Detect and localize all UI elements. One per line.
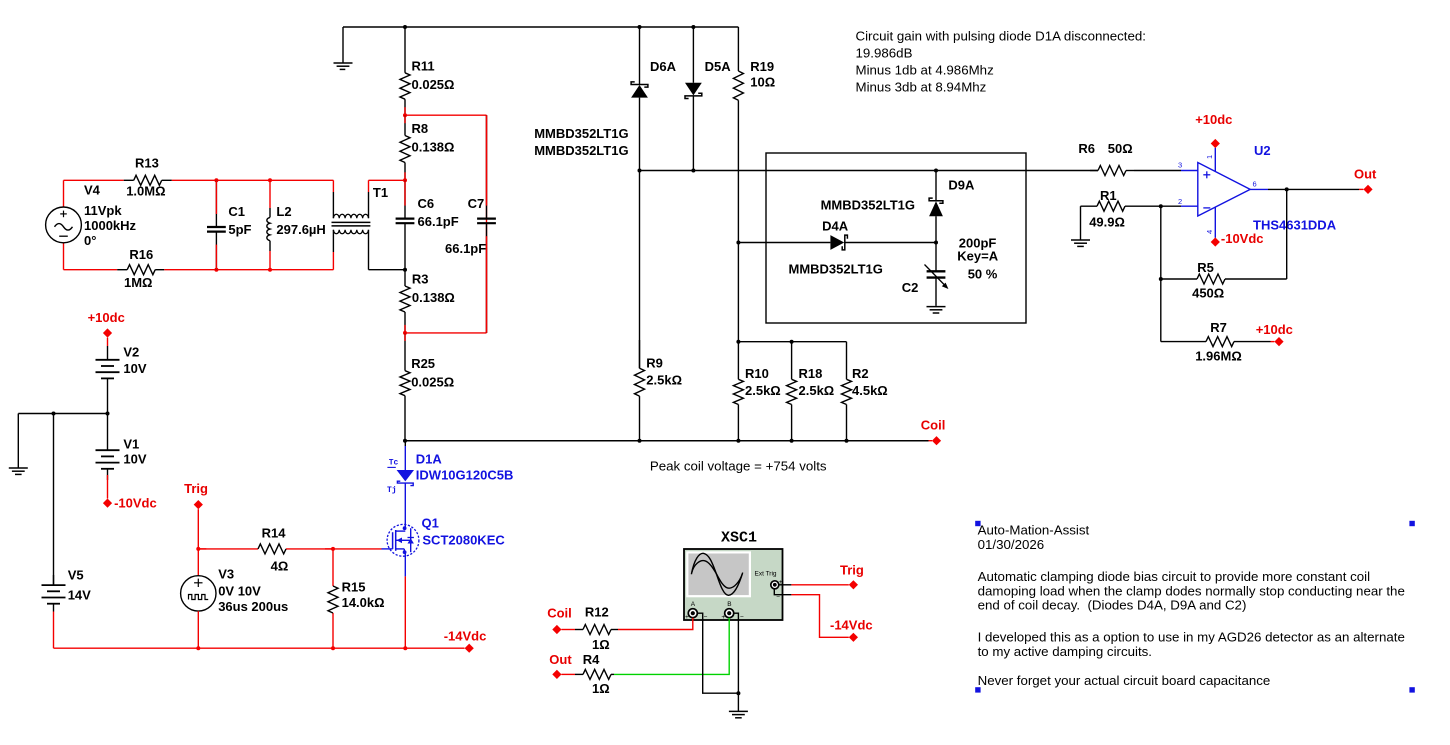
resistor R5 xyxy=(1161,260,1287,301)
wire (A- to ground) xyxy=(697,613,738,693)
node junction (red) xyxy=(403,331,407,335)
svg-text:IDW10G120C5B: IDW10G120C5B xyxy=(416,468,514,483)
svg-text:19.986dB: 19.986dB xyxy=(856,46,913,61)
svg-text:R2: R2 xyxy=(852,366,869,381)
wire xyxy=(1134,170,1181,172)
wire xyxy=(929,440,933,442)
resistor R25 xyxy=(400,333,454,441)
resistor R14 xyxy=(198,525,333,573)
svg-text:R14: R14 xyxy=(262,525,287,540)
svg-text:R1: R1 xyxy=(1100,188,1117,203)
svg-text:2.5kΩ: 2.5kΩ xyxy=(745,383,781,398)
svg-text:XSC1: XSC1 xyxy=(721,530,757,547)
svg-text:4Ω: 4Ω xyxy=(271,558,289,573)
svg-text:1.0MΩ: 1.0MΩ xyxy=(126,184,165,199)
svg-text:MMBD352LT1G: MMBD352LT1G xyxy=(789,262,883,277)
svg-text:R8: R8 xyxy=(412,121,429,136)
node xyxy=(268,268,272,272)
svg-text:R4: R4 xyxy=(583,652,600,667)
node junction xyxy=(196,646,200,650)
diode D4A xyxy=(822,219,849,250)
svg-text:1Ω: 1Ω xyxy=(592,637,610,652)
svg-text:+10dc: +10dc xyxy=(88,310,125,325)
svg-text:1Ω: 1Ω xyxy=(592,681,610,696)
svg-text:D5A: D5A xyxy=(705,59,732,74)
svg-text:-14Vdc: -14Vdc xyxy=(444,628,487,643)
wire xyxy=(18,413,107,415)
node junction xyxy=(106,412,110,416)
node Coil xyxy=(921,418,946,446)
svg-text:-14Vdc: -14Vdc xyxy=(830,617,873,632)
node junction xyxy=(403,268,407,272)
node -14Vdc xyxy=(444,628,487,652)
resistor R7 xyxy=(1161,320,1271,364)
source V3 xyxy=(181,549,289,648)
capacitor C2 xyxy=(902,235,999,305)
svg-text:damoping load when the clamp d: damoping load when the clamp dodes norma… xyxy=(978,583,1405,598)
svg-text:0.025Ω: 0.025Ω xyxy=(411,375,454,390)
diode D5A xyxy=(685,27,731,171)
transistor Q1 xyxy=(382,516,506,557)
inductor L2 xyxy=(267,180,326,269)
annotation handles (blue squares) xyxy=(975,521,1415,693)
svg-text:R10: R10 xyxy=(745,366,769,381)
wire (jog) xyxy=(738,341,846,343)
svg-text:V2: V2 xyxy=(123,345,139,360)
node junction xyxy=(736,340,740,344)
resistor R19 xyxy=(733,27,775,243)
node junction (red) xyxy=(403,178,407,182)
svg-text:2: 2 xyxy=(1178,197,1182,206)
wire xyxy=(639,171,641,369)
svg-text:14V: 14V xyxy=(68,588,91,603)
node Coil (scope) xyxy=(547,606,572,634)
wire (D4A line) xyxy=(738,242,830,244)
svg-text:D9A: D9A xyxy=(948,178,975,193)
svg-text:+10dc: +10dc xyxy=(1256,322,1293,337)
svg-text:MMBD352LT1G: MMBD352LT1G xyxy=(534,126,628,141)
wire xyxy=(369,179,406,181)
oscilloscope XSC1 xyxy=(684,549,783,621)
node junction xyxy=(638,169,642,173)
svg-text:Auto-Mation-Assist: Auto-Mation-Assist xyxy=(978,523,1090,538)
wire xyxy=(53,612,55,649)
svg-text:R12: R12 xyxy=(585,605,609,620)
svg-text:10V: 10V xyxy=(123,451,146,466)
node junction xyxy=(736,439,740,443)
wire (coil bus) xyxy=(405,440,929,442)
wire xyxy=(1359,188,1363,190)
svg-text:Out: Out xyxy=(1354,167,1377,182)
svg-text:end of coil decay. (Diodes D4: end of coil decay. (Diodes D4A, D9A and … xyxy=(978,598,1247,613)
svg-text:−: − xyxy=(740,614,744,621)
node junction xyxy=(934,241,938,245)
ground (C2) xyxy=(927,306,946,313)
node junction xyxy=(790,439,794,443)
svg-text:R19: R19 xyxy=(750,59,774,74)
node junction xyxy=(331,547,335,551)
svg-text:D1A: D1A xyxy=(416,452,443,467)
wire xyxy=(561,673,575,675)
svg-text:R6: R6 xyxy=(1078,141,1095,156)
wire xyxy=(561,629,575,631)
node junction xyxy=(736,691,740,695)
wire xyxy=(64,179,124,181)
node junction xyxy=(1159,204,1163,208)
svg-text:6: 6 xyxy=(1253,180,1257,189)
svg-text:Coil: Coil xyxy=(921,418,946,433)
svg-text:450Ω: 450Ω xyxy=(1192,286,1224,301)
svg-text:10V: 10V xyxy=(123,361,146,376)
svg-text:1.96MΩ: 1.96MΩ xyxy=(1195,349,1242,364)
svg-text:2.5kΩ: 2.5kΩ xyxy=(799,383,835,398)
resistor R18 xyxy=(787,342,835,441)
node Out xyxy=(1354,167,1377,195)
svg-text:A: A xyxy=(691,601,696,608)
svg-text:3: 3 xyxy=(1178,161,1182,170)
wire xyxy=(1286,189,1288,279)
node xyxy=(214,268,218,272)
node junction R11 top xyxy=(403,25,407,29)
wire xyxy=(64,269,118,271)
resistor R10 xyxy=(733,342,780,441)
svg-text:R18: R18 xyxy=(799,366,823,381)
svg-text:L2: L2 xyxy=(276,204,291,219)
node junction xyxy=(934,169,938,173)
wire xyxy=(405,114,487,116)
svg-text:R3: R3 xyxy=(412,272,429,287)
wire (gate) xyxy=(333,548,382,550)
svg-text:Trig: Trig xyxy=(840,562,864,577)
wire xyxy=(197,509,199,549)
svg-text:0.138Ω: 0.138Ω xyxy=(412,290,455,305)
wire xyxy=(737,243,739,342)
svg-text:D6A: D6A xyxy=(650,59,677,74)
svg-text:B: B xyxy=(727,601,731,608)
svg-text:C6: C6 xyxy=(418,196,435,211)
wire xyxy=(1271,341,1275,343)
node Trig xyxy=(184,481,208,509)
svg-text:Circuit gain with pulsing diod: Circuit gain with pulsing diode D1A disc… xyxy=(856,29,1147,44)
svg-text:4.5kΩ: 4.5kΩ xyxy=(852,383,888,398)
svg-text:R11: R11 xyxy=(412,58,435,73)
capacitor C7 xyxy=(445,115,496,333)
svg-text:66.1pF: 66.1pF xyxy=(445,241,486,256)
capacitor C6 xyxy=(396,180,459,269)
svg-text:C1: C1 xyxy=(228,204,245,219)
node +10dc (op-amp V+) xyxy=(1195,112,1232,148)
svg-text:1: 1 xyxy=(1205,155,1214,159)
svg-text:66.1pF: 66.1pF xyxy=(418,214,459,229)
resistor R13 xyxy=(124,156,172,199)
svg-text:Q1: Q1 xyxy=(422,516,439,531)
node junction xyxy=(638,25,642,29)
wire (green to B+) xyxy=(614,618,729,675)
node junction xyxy=(845,439,849,443)
wire xyxy=(1160,206,1162,341)
diode D6A xyxy=(631,27,677,171)
svg-text:T1: T1 xyxy=(373,185,388,200)
svg-text:5pF: 5pF xyxy=(228,222,251,237)
node Out (scope) xyxy=(549,652,572,679)
wire (net to op-amp +) xyxy=(640,170,1099,172)
wire (-14Vdc bus) xyxy=(198,647,464,649)
node -14Vdc (scope) xyxy=(830,617,873,642)
svg-text:0.025Ω: 0.025Ω xyxy=(412,77,455,92)
battery V2 xyxy=(96,345,147,414)
svg-text:Tc: Tc xyxy=(389,459,399,468)
svg-text:V3: V3 xyxy=(218,566,234,581)
battery V5 xyxy=(42,568,92,612)
diode D9A xyxy=(929,171,975,243)
svg-text:+10dc: +10dc xyxy=(1195,112,1232,127)
svg-text:-10Vdc: -10Vdc xyxy=(114,495,157,510)
node junction xyxy=(790,340,794,344)
svg-text:49.9Ω: 49.9Ω xyxy=(1089,215,1125,230)
resistor R2 xyxy=(842,342,888,441)
box (clamp sub-circuit) xyxy=(766,153,1026,323)
node xyxy=(268,178,272,182)
svg-text:297.6µH: 297.6µH xyxy=(276,222,325,237)
node junction xyxy=(691,25,695,29)
node junction xyxy=(403,646,407,650)
node junction xyxy=(331,646,335,650)
svg-text:R15: R15 xyxy=(342,580,366,595)
wire xyxy=(405,332,487,334)
svg-text:4: 4 xyxy=(1205,230,1214,234)
wire xyxy=(107,338,109,346)
svg-text:R16: R16 xyxy=(129,247,153,262)
svg-text:SCT2080KEC: SCT2080KEC xyxy=(422,532,505,547)
resistor R15 xyxy=(328,549,385,648)
resistor R11 xyxy=(400,27,454,115)
svg-text:Tj: Tj xyxy=(387,486,397,495)
svg-text:0°: 0° xyxy=(84,233,96,248)
node +10dc (R7) xyxy=(1256,322,1293,346)
resistor R12 xyxy=(575,605,618,652)
ground (left) xyxy=(9,414,28,475)
svg-text:C7: C7 xyxy=(468,196,485,211)
annotation (description block) xyxy=(978,523,1405,689)
node junction xyxy=(1285,187,1289,191)
resistor R9 xyxy=(635,340,683,441)
wire xyxy=(791,584,848,586)
svg-text:1MΩ: 1MΩ xyxy=(124,275,152,290)
wire (ext trig -) xyxy=(774,589,791,595)
node junction xyxy=(1159,277,1163,281)
svg-text:Minus 1db at 4.986Mhz: Minus 1db at 4.986Mhz xyxy=(856,63,994,78)
svg-text:11Vpk: 11Vpk xyxy=(84,203,122,218)
svg-text:MMBD352LT1G: MMBD352LT1G xyxy=(821,198,915,213)
op-amp U2 xyxy=(1178,143,1337,238)
svg-text:+: + xyxy=(721,614,725,621)
svg-text:0.138Ω: 0.138Ω xyxy=(412,140,455,155)
node junction xyxy=(196,547,200,551)
svg-text:MMBD352LT1G: MMBD352LT1G xyxy=(534,143,628,158)
wire (red to A+) xyxy=(618,618,693,630)
wire (B- to ground) xyxy=(734,613,739,693)
svg-text:Trig: Trig xyxy=(184,481,208,496)
diode D1A xyxy=(387,441,513,525)
svg-text:R9: R9 xyxy=(646,356,663,371)
ground (scope) xyxy=(729,693,748,718)
wire xyxy=(791,595,848,638)
svg-text:R13: R13 xyxy=(135,156,159,171)
svg-text:+: + xyxy=(685,614,689,621)
node junction xyxy=(736,241,740,245)
node junction (red) xyxy=(403,113,407,117)
resistor R8 xyxy=(400,115,454,180)
svg-text:R7: R7 xyxy=(1210,320,1227,335)
node junction xyxy=(403,439,407,443)
svg-text:Minus 3db at 8.94Mhz: Minus 3db at 8.94Mhz xyxy=(856,80,987,95)
svg-text:R5: R5 xyxy=(1197,260,1214,275)
wire xyxy=(343,26,738,28)
svg-text:Key=A: Key=A xyxy=(957,249,998,264)
svg-text:1000kHz: 1000kHz xyxy=(84,218,137,233)
svg-text:14.0kΩ: 14.0kΩ xyxy=(342,595,385,610)
svg-text:V5: V5 xyxy=(68,568,84,583)
svg-text:2.5kΩ: 2.5kΩ xyxy=(646,373,682,388)
wire xyxy=(369,269,406,271)
annotation (circuit gain) xyxy=(856,29,1147,95)
node Trig (scope) xyxy=(840,562,864,589)
wire xyxy=(486,115,488,333)
node junction xyxy=(52,412,56,416)
node junction xyxy=(638,439,642,443)
svg-text:V1: V1 xyxy=(123,437,139,452)
svg-text:-10Vdc: -10Vdc xyxy=(1221,231,1264,246)
wire xyxy=(107,475,109,499)
node -10Vdc xyxy=(103,495,157,510)
svg-text:10Ω: 10Ω xyxy=(750,74,775,89)
svg-text:01/30/2026: 01/30/2026 xyxy=(978,537,1045,552)
resistor R1 xyxy=(1081,188,1161,230)
battery V1 xyxy=(96,414,147,481)
resistor R3 xyxy=(400,270,455,333)
transformer T1 xyxy=(332,180,389,269)
svg-text:R25: R25 xyxy=(411,356,435,371)
wire (output) xyxy=(1268,188,1359,190)
source V4 xyxy=(46,180,137,269)
resistor R4 xyxy=(575,652,614,696)
svg-text:D4A: D4A xyxy=(822,219,849,234)
svg-text:I developed this as a option t: I developed this as a option to use in m… xyxy=(978,630,1405,645)
wire xyxy=(53,414,55,586)
svg-text:Automatic clamping diode bias: Automatic clamping diode bias circuit to… xyxy=(978,569,1370,584)
capacitor C1 xyxy=(207,180,252,269)
svg-text:−: − xyxy=(704,614,708,621)
svg-text:36us 200us: 36us 200us xyxy=(218,599,288,614)
svg-text:50Ω: 50Ω xyxy=(1108,141,1133,156)
wire xyxy=(1161,205,1181,207)
svg-text:to my active damping circuits.: to my active damping circuits. xyxy=(978,644,1152,659)
svg-text:Never forget your actual circu: Never forget your actual circuit board c… xyxy=(978,673,1271,688)
svg-text:U2: U2 xyxy=(1254,143,1271,158)
svg-text:Coil: Coil xyxy=(547,606,572,621)
svg-text:Peak coil voltage = +754 volts: Peak coil voltage = +754 volts xyxy=(650,459,827,474)
wire (Q1 source to -14Vdc bus) xyxy=(404,552,406,576)
wire xyxy=(172,179,334,181)
node junction xyxy=(691,169,695,173)
svg-text:Out: Out xyxy=(549,652,572,667)
svg-text:0V 10V: 0V 10V xyxy=(218,583,261,598)
svg-text:C2: C2 xyxy=(902,280,919,295)
svg-text:V4: V4 xyxy=(84,183,101,198)
wire (ext trig +) xyxy=(779,584,792,586)
ground (R1) xyxy=(1071,206,1090,246)
node -10Vdc (op-amp V-) xyxy=(1211,231,1264,246)
svg-text:50 %: 50 % xyxy=(968,267,998,282)
svg-text:Ext Trig: Ext Trig xyxy=(755,571,777,578)
ground (top left of R11) xyxy=(334,27,353,69)
resistor R6 xyxy=(1078,141,1134,176)
wire xyxy=(164,269,333,271)
resistor R16 xyxy=(117,247,164,290)
node xyxy=(214,178,218,182)
svg-text:THS4631DDA: THS4631DDA xyxy=(1253,218,1337,233)
node +10dc xyxy=(88,310,125,337)
